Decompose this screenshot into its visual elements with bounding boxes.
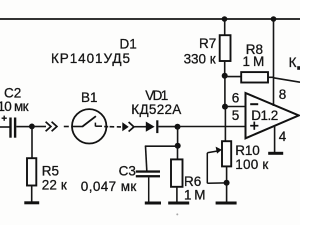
resistor R5 [27,158,36,185]
svg-text:VD1: VD1 [145,88,168,103]
label R10 value 100 k [235,157,268,172]
label D1 [120,36,137,51]
arrow chevrons into VD1 [122,122,134,132]
label R5 value 22 k [42,178,67,193]
label R10 [235,143,259,158]
potentiometer R10 wiper arrow [207,147,226,184]
svg-text:1: 1 [184,187,192,202]
wire C2 to node A [16,126,32,128]
wire VD1 to node B [158,126,177,128]
label pin 5 [232,108,240,123]
svg-text:5: 5 [232,108,240,123]
svg-text:100 к: 100 к [235,157,268,172]
svg-text:КД522А: КД522А [131,102,181,117]
label pin 6 [232,90,240,105]
label R8 [246,42,263,57]
wire node B down to node C [177,127,179,146]
resistor R6 [171,159,183,186]
label R8 value 1 M [243,54,265,69]
diode VD1 [146,120,159,133]
wire input from left edge to C2 [0,126,10,128]
wire opamp pin 4 to ground [274,125,276,152]
ground pin 4 [268,152,283,155]
wire R6 to ground [176,187,178,202]
op-amp D1.2 [246,93,299,138]
label pin 4 [279,129,287,144]
label C3 [119,163,136,178]
label K [289,55,300,70]
label KP1401UD5 [51,51,130,66]
resistor R8 [241,72,268,82]
arrow chevrons into B1 [46,122,57,132]
capacitor C3 [136,170,160,177]
label C3 value 0,047 mk [81,179,137,194]
svg-text:0,047 мк: 0,047 мк [81,179,137,194]
wire R10 to node F [226,166,228,182]
wire dash before B1 [64,126,69,128]
potentiometer R10 body [222,141,231,166]
ground C3 [145,202,161,205]
svg-text:1: 1 [243,54,251,69]
wire node E to opamp pin 6 [225,106,246,108]
wire node C down to R6 [177,146,179,160]
svg-text:C3: C3 [119,163,136,178]
wire C3 to ground [148,177,150,202]
label R5 [42,163,59,178]
wire node C left to C3 [145,145,178,147]
label B1 [81,90,98,105]
wire power column rail to opamp pin 8 [273,19,275,106]
node junction rail-power column [271,16,277,22]
node E junction pin6 [222,104,228,110]
label R7 value 330 k [184,52,216,67]
wire R8 to power column [268,76,274,78]
capacitor C2 polarity plus [2,116,7,121]
node junction rail-R7 [222,16,228,22]
wire dashes after B1 [104,126,121,128]
wire top supply rail [0,18,300,20]
wire node D to R8 [225,76,242,78]
svg-text:К: К [289,55,297,70]
svg-text:R5: R5 [42,163,59,178]
svg-text:R10: R10 [235,143,259,158]
svg-text:R7: R7 [199,36,216,51]
label C2 [4,86,21,101]
op-amp inverting input minus mark [250,103,258,105]
wire K output to right edge [274,78,301,82]
label R6 [184,174,201,189]
node A junction after C2 [29,124,35,130]
svg-text:6: 6 [232,90,240,105]
wire node A to arrows [32,126,46,128]
wire node D down to node E [224,76,226,107]
label D1.2 [251,108,278,123]
node B diode junction [175,124,181,130]
sensor B1 circle [72,109,106,143]
op-amp noninverting input plus mark [250,122,258,130]
svg-text:10 мк: 10 мк [0,99,29,114]
svg-text:М: М [253,54,264,69]
node F junction R10 wiper [224,180,230,186]
svg-text:330 к: 330 к [184,52,216,67]
svg-text:М: М [194,187,205,202]
wire node E down to R10 [224,107,226,142]
node D junction R7/R8 [222,73,228,79]
label pin 8 [279,87,287,102]
svg-text:КР1401УД5: КР1401УД5 [51,51,130,66]
svg-text:8: 8 [279,87,287,102]
capacitor C2 [9,118,16,138]
wire rail down to R7 [224,19,226,35]
svg-text:4: 4 [279,129,287,144]
svg-text:D1.2: D1.2 [251,108,278,123]
wire R5 to ground [31,186,33,203]
wire R7 to node D [224,61,226,76]
wire node B to opamp pin 5 [178,126,246,128]
sensor B1 switch contacts [72,116,102,126]
wire node F to ground [226,183,228,202]
label C2 value 10 mk [0,99,29,114]
wire down to C3 top plate [146,146,147,170]
svg-text:22 к: 22 к [42,178,67,193]
ground R10 [216,202,237,205]
label R6 value 1 M [184,187,206,202]
svg-text:D1: D1 [120,36,137,51]
wire node A down to R5 [31,127,33,159]
wire arrows to VD1 [135,126,147,128]
label KD522A [131,102,181,117]
ground R5 [24,201,39,204]
ground R6 [168,202,189,205]
label VD1 [145,88,168,103]
label R7 [199,36,216,51]
svg-text:B1: B1 [81,90,98,105]
resistor R7 [220,35,231,61]
node C junction C3/R6 [175,143,181,149]
speck artifact [176,213,178,215]
